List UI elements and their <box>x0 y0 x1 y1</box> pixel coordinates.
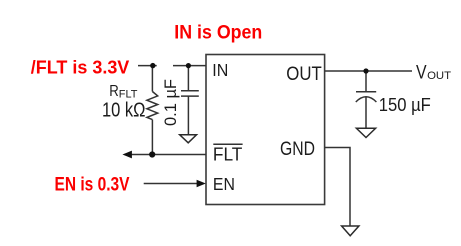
svg-text:10 kΩ: 10 kΩ <box>102 100 146 122</box>
svg-text:EN is 0.3V: EN is 0.3V <box>55 174 130 195</box>
svg-text:IN: IN <box>212 60 228 80</box>
svg-text:EN: EN <box>213 174 235 194</box>
svg-text:FLT: FLT <box>213 144 243 165</box>
svg-text:V: V <box>416 63 427 84</box>
svg-text:GND: GND <box>280 139 315 160</box>
svg-text:OUT: OUT <box>427 70 451 82</box>
svg-text:OUT: OUT <box>286 63 322 85</box>
svg-text:IN is Open: IN is Open <box>174 22 262 44</box>
svg-text:150 µF: 150 µF <box>379 94 431 115</box>
svg-text:R: R <box>109 83 119 100</box>
svg-text:/FLT is 3.3V: /FLT is 3.3V <box>31 56 130 77</box>
svg-text:0.1 µF: 0.1 µF <box>161 79 180 126</box>
